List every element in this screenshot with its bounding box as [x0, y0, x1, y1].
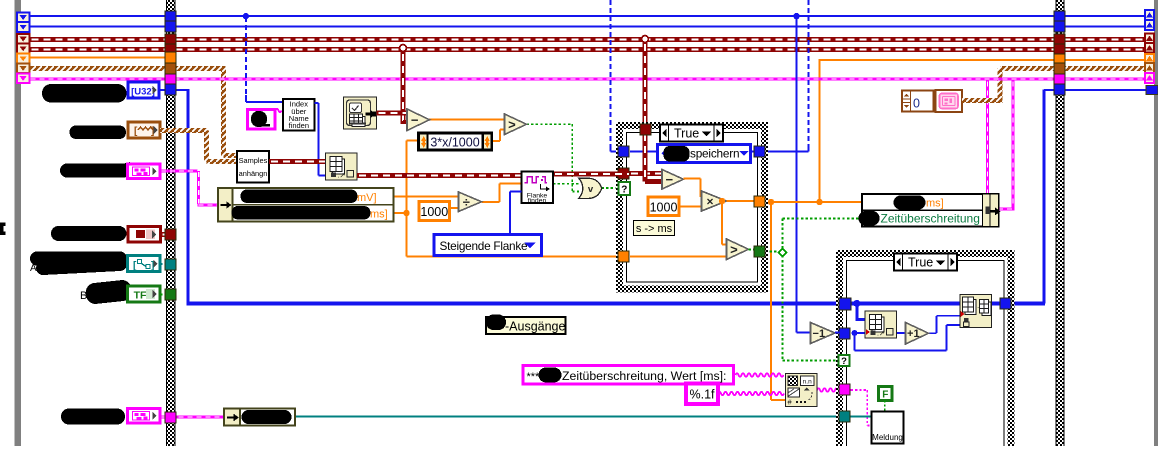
case1 subtract output wire [684, 178, 701, 180]
case2 replace array subset node [960, 295, 992, 328]
wire: F to Meldung [884, 401, 886, 413]
svg-text:***: *** [527, 371, 541, 383]
svg-text:-Ausgänge: -Ausgänge [505, 320, 566, 334]
wire: decrement output [835, 332, 840, 334]
wire: subtract output to greater-than [430, 119, 505, 121]
node: bundle by name (2 rows) [859, 194, 1001, 227]
case1 ring constant "speichern" [657, 144, 751, 163]
svg-text:.↗: .↗ [877, 331, 885, 338]
wire: blue dashed vertical to inner case 1 left tunnel [609, 0, 611, 146]
control: TF terminal row6 [128, 286, 161, 302]
wire: array-of-cluster dark red net 2 [30, 47, 1146, 52]
node: constant 1000 (outside) [419, 202, 450, 221]
wire: OR output to case selector [602, 187, 620, 189]
case1 selector label "True" [660, 125, 723, 142]
node: unbundle by name (2 rows) [218, 188, 394, 222]
wire: I32 blue net 2 [30, 26, 1146, 28]
case1 greater output stub [749, 249, 755, 251]
svg-text:s -> ms: s -> ms [636, 223, 673, 235]
wire: constant 1000 to divide [450, 207, 459, 209]
case1 s->ms label [634, 221, 675, 236]
node: subtract (top) [407, 109, 430, 131]
node: divide [459, 192, 482, 212]
wire: wavy string to node [276, 109, 282, 113]
wire: Samples output to Index Array [269, 159, 326, 164]
node: enum constant Steigende Flanke [434, 235, 542, 256]
wire: blue vertical to decrement [796, 16, 798, 333]
decrement node (left of case2) [811, 323, 836, 344]
svg-text:−: − [666, 172, 674, 187]
wire: TF control to tunnel [161, 294, 169, 296]
node: Samples anhaengn [237, 151, 269, 183]
case2 F constant [879, 387, 893, 401]
svg-text:Steigende Flanke: Steigende Flanke [440, 239, 529, 253]
wire: orange into inner case 1 lower tunnel [407, 256, 621, 258]
svg-text:anhängn: anhängn [239, 169, 268, 178]
wire: waveform brown rope vertical into Samples anhaengn [221, 69, 226, 156]
svg-text:1000: 1000 [650, 201, 678, 215]
node: to-timestamp display icon [936, 90, 963, 112]
svg-text:−1: −1 [813, 328, 826, 340]
case1 subtract [662, 170, 684, 190]
string constant: Zeitueberschreitung Wert [523, 366, 734, 385]
label blob (bottom cluster control) [61, 409, 125, 425]
label blob (boolean control row6) [80, 279, 132, 305]
svg-text:÷: ÷ [463, 194, 470, 209]
case2 index array node [865, 311, 897, 338]
wire: greater-than output (boolean dotted) to OR [527, 123, 573, 125]
svg-text:Zeitüberschreitung, Wert [ms]:: Zeitüberschreitung, Wert [ms]: [562, 369, 726, 383]
wire: ring stubs [630, 151, 658, 153]
svg-text:3*x/1000: 3*x/1000 [430, 136, 479, 150]
svg-text:ms]: ms] [926, 198, 944, 210]
case1 wire 1000 to multiply [679, 206, 702, 208]
svg-text:finden: finden [289, 121, 309, 130]
case1 orange wire to greater-than [630, 256, 727, 258]
main case left tunnels [165, 11, 176, 22]
wire: teal control to tunnel [160, 263, 168, 265]
label blob (waveform array control) [70, 126, 127, 140]
wire: waveform control rope to Samples anhaengn [160, 128, 208, 133]
case2 thin blue wires [852, 332, 866, 334]
label blob (mean control row4) [51, 226, 127, 241]
while loop border (right gray bar) [1154, 0, 1158, 446]
wire: dark red vertical branch to subtract (with hop) [401, 52, 406, 124]
case1 tunnels [618, 146, 629, 157]
svg-text:.↗: .↗ [338, 173, 346, 180]
wire: magenta vertical from bundle output up to net [1012, 81, 1015, 210]
node: DAQ device icon [344, 97, 377, 129]
wire: dark red vertical branch into inner case 1 (with hop) [643, 42, 648, 126]
node: OR gate [579, 178, 602, 198]
wire: orange vertical to format node [770, 202, 772, 400]
wire: Flanke finden boolean output to OR [553, 183, 579, 185]
svg-text:ms]: ms] [370, 209, 388, 221]
wire: waveform brown rope net, left segment [30, 66, 226, 71]
main case structure left border [166, 0, 176, 446]
node: format into string [786, 374, 818, 407]
left shift registers [17, 13, 30, 84]
node: small unbundle by name (bottom) [224, 409, 295, 426]
svg-text:−: − [411, 112, 419, 127]
while loop border (left gray bar) [15, 0, 22, 446]
node: Flanke finden [522, 172, 554, 205]
string constant: %.1f [686, 384, 718, 405]
wire: rope from timestamp node [962, 98, 1000, 103]
svg-text:[U32]: [U32] [131, 87, 155, 98]
svg-text:Zeitüberschreitung: Zeitüberschreitung [881, 212, 980, 226]
wire: blue dashed vertical from inner case 1 right tunnel [808, 0, 810, 146]
svg-text:mV]: mV] [357, 192, 377, 204]
svg-text:1000: 1000 [420, 205, 448, 219]
cropped object at image left edge [0, 223, 6, 236]
label blob (cluster control row3) [60, 162, 131, 178]
case1 constant 1000 [648, 197, 679, 216]
svg-text:speichern: speichern [690, 147, 739, 161]
case2 selector label "True" [894, 254, 957, 271]
svg-text:F: F [882, 390, 888, 401]
wire: array-of-cluster dark red net 1 [30, 37, 1146, 42]
wire: blue dashed vertical to Index ueber Name finden [245, 17, 247, 96]
wire: teal stub inside case2 [851, 416, 873, 418]
wire: enum to Flanke finden [509, 192, 511, 236]
wire: format node output to case2 (wavy) [817, 388, 841, 392]
inner case structure 2 (timeout case) [839, 253, 1013, 451]
node: expression 3*x/1000 [419, 133, 492, 150]
svg-text:TF: TF [134, 290, 147, 302]
wire: device icon output [377, 111, 409, 116]
outer loop right tunnel (blue) [1146, 85, 1158, 94]
case1 selector terminal [?] [619, 182, 631, 195]
wire: %.1f to format node (wavy) [718, 392, 784, 396]
wire: message string inside case2 (dotted magenta) [851, 389, 868, 391]
wire: waveform rope right segment [1000, 66, 1145, 71]
wire: I32 blue net 1 (top) [30, 15, 1146, 17]
case1 dark red horizontal into subtract [629, 171, 662, 176]
svg-text:>: > [730, 242, 738, 257]
svg-text:A: A [30, 263, 37, 274]
svg-text:0: 0 [913, 97, 920, 111]
node: Index ueber Name finden [283, 99, 315, 131]
svg-text:finden: finden [528, 198, 547, 205]
node: timestamp constant 0 with spinner [902, 91, 934, 112]
control: cluster terminal row3 [128, 164, 161, 179]
wire: row4 to tunnel [161, 232, 169, 237]
case2 increment node [906, 323, 929, 345]
svg-text:Samples: Samples [239, 156, 268, 165]
case2 tunnels [839, 298, 851, 310]
svg-text:n.n: n.n [803, 379, 812, 386]
node: greater-than (top) [505, 114, 527, 135]
main case right tunnels [1054, 11, 1065, 22]
wire: node output down to Index Array [315, 102, 319, 104]
svg-text:%.1f: %.1f [689, 388, 715, 402]
svg-text:>: > [508, 117, 516, 132]
svg-text:+1: +1 [907, 328, 920, 340]
wire: unbundle [ms] output with junction [394, 212, 407, 214]
wire: string constant to format node (wavy) [736, 373, 784, 377]
case1 dark red vertical to subtract lower input [643, 132, 648, 182]
case1 greater-than [727, 239, 749, 260]
main case structure right border [1056, 0, 1065, 446]
wire: orange DBL net, left segment to tunnel [30, 57, 168, 59]
wire: U32 array thick blue path [159, 89, 188, 91]
node: Index Array (main) [326, 153, 358, 180]
label: -Ausgaenge [486, 315, 566, 335]
svg-text:?: ? [621, 184, 627, 195]
wire: orange DBL net, right segment from corner to right shift register [820, 59, 1146, 61]
svg-text:?: ? [841, 356, 847, 367]
label blob (digital waveform control row5) [30, 252, 127, 276]
svg-text:v: v [588, 184, 594, 195]
wire: teal string output of small unbundle to Meldung [295, 416, 841, 418]
control: teal terminal row5 [128, 256, 161, 272]
wire: string-cluster magenta dashed net (full width) [30, 78, 1146, 81]
svg-text:True: True [674, 127, 699, 141]
wire: divide output to Flanke finden [482, 201, 500, 203]
case1 multiply [702, 191, 727, 211]
wire: expression node output to greater-than [492, 140, 501, 142]
wire: magenta vertical branch into bundle input [986, 81, 989, 195]
control: cluster terminal bottom [128, 409, 161, 424]
wire: cluster control row3 to unbundle [160, 170, 198, 173]
control: waveform array terminal [128, 122, 160, 138]
control: dark red terminal row4 [128, 227, 161, 243]
wire: timeout boolean from case1 to bundle and case2 selector [765, 251, 780, 253]
svg-text:True: True [908, 256, 933, 270]
case2 selector terminal [?] [839, 355, 850, 366]
wire: multiply result to bundle node [765, 201, 862, 203]
inner case structure 1 (save case) [619, 125, 766, 291]
wire: bottom cluster control to small unbundle [160, 416, 225, 419]
case2 thick blue wires [851, 302, 1002, 306]
label blob (channels array control) [42, 84, 127, 103]
wire: Index Array output to case1 [357, 173, 522, 178]
case2 Meldung subVI [872, 412, 904, 444]
string constant (redacted) feeding Index ueber Name finden [248, 110, 276, 130]
case1 multiply output [727, 200, 755, 202]
wire: unbundle [mV] output to divide [394, 196, 459, 198]
control: U32 array terminal [128, 82, 159, 98]
wire junction diamond [779, 249, 787, 257]
svg-text:Meldung: Meldung [872, 433, 903, 442]
svg-text:×: × [706, 194, 713, 208]
right shift registers [1145, 10, 1154, 83]
